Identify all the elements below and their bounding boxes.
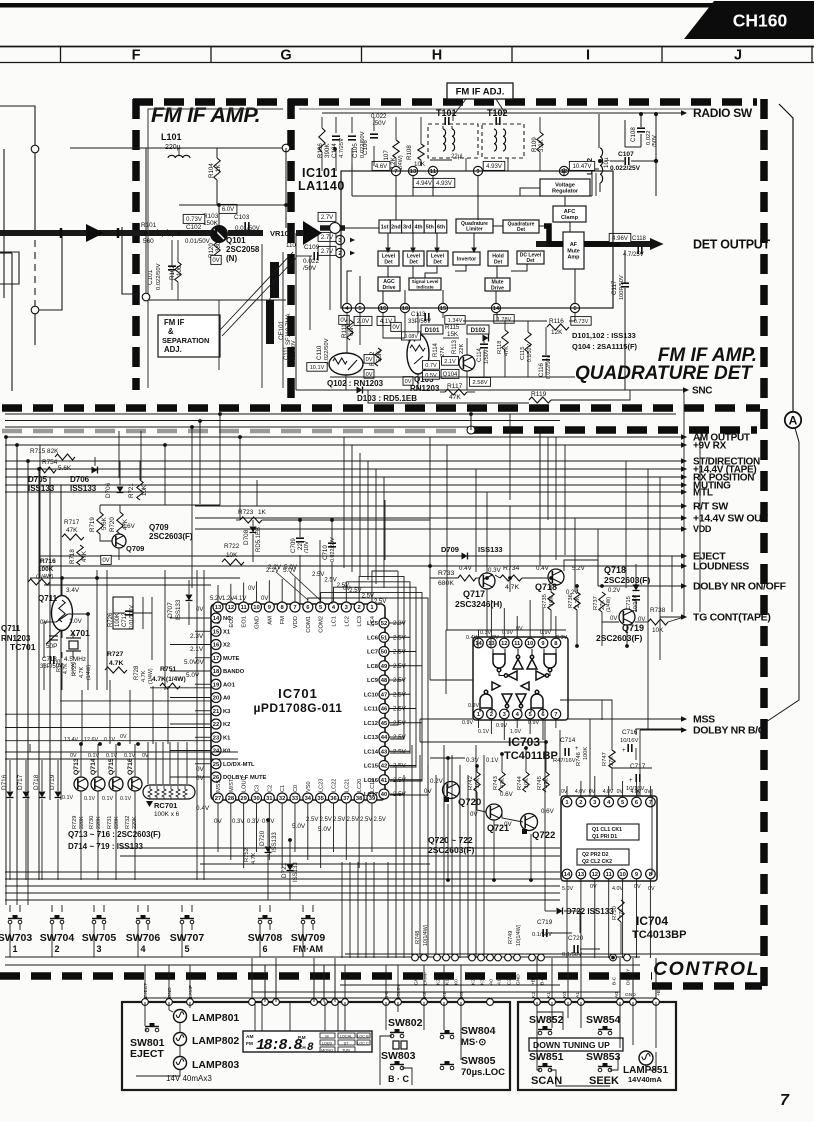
svg-text:SCAN: SCAN — [531, 1075, 562, 1087]
left low verticals — [82, 680, 168, 744]
net DOLBY NR B/C — [640, 729, 681, 731]
svg-text:RD5.1EB: RD5.1EB — [256, 527, 262, 552]
svg-text:C107: C107 — [618, 151, 634, 158]
svg-text:CONTROL: CONTROL — [653, 958, 760, 980]
svg-text:R101: R101 — [141, 222, 157, 229]
resistor R721 — [137, 480, 143, 500]
main bus arrowhead — [303, 221, 322, 245]
transistor Q102 oval — [329, 353, 363, 375]
wire IC101 box outline — [352, 165, 592, 196]
svg-text:DOLBY NR ON/OFF: DOLBY NR ON/OFF — [693, 581, 787, 593]
svg-text:ISS133: ISS133 — [478, 545, 503, 554]
svg-text:LC6: LC6 — [367, 635, 379, 641]
svg-text:0.3V: 0.3V — [480, 630, 491, 636]
svg-text:K2: K2 — [471, 979, 477, 985]
IC704 pin 14 — [562, 869, 572, 879]
svg-text:2.5V: 2.5V — [347, 817, 359, 823]
svg-text:0.9V: 0.9V — [556, 635, 567, 641]
IC703 pin 14 — [474, 638, 484, 648]
svg-text:R737: R737 — [593, 596, 599, 610]
svg-text:I: I — [586, 48, 590, 64]
right column verticals mid — [420, 390, 700, 760]
svg-text:SW854: SW854 — [586, 1014, 621, 1026]
svg-text:R103: R103 — [203, 213, 219, 220]
IC701 pin 32 — [277, 793, 287, 803]
net +9V RX — [5, 444, 681, 446]
diode D707 — [186, 595, 193, 601]
svg-text:DOWN TUNING UP: DOWN TUNING UP — [533, 1040, 610, 1050]
svg-text:10: 10 — [619, 872, 625, 878]
svg-text:SW853: SW853 — [586, 1051, 621, 1063]
svg-text:DET OUTPUT: DET OUTPUT — [693, 238, 771, 252]
IC101 bottom pin 10 — [400, 303, 409, 312]
svg-text:D720: D720 — [259, 830, 266, 846]
svg-text:3.9K: 3.9K — [538, 138, 545, 152]
svg-text:K2: K2 — [422, 992, 428, 998]
svg-text:Det: Det — [409, 259, 418, 265]
svg-text:C717: C717 — [630, 763, 646, 770]
svg-text:44: 44 — [381, 735, 388, 741]
lamp LAMP803 — [174, 1057, 187, 1070]
svg-text:Q102 : RN1203: Q102 : RN1203 — [327, 379, 384, 388]
IC701 pin 37 — [341, 793, 351, 803]
wires Q717-719 — [270, 555, 684, 680]
svg-text:ADJ.: ADJ. — [164, 345, 182, 354]
svg-text:47K: 47K — [500, 778, 506, 788]
svg-text:2SC3246(H): 2SC3246(H) — [455, 599, 502, 609]
svg-text:R720: R720 — [109, 517, 116, 532]
IC101 bottom pin 4 — [342, 303, 351, 312]
IC704 pin 2 — [576, 797, 586, 807]
svg-text:4.7K: 4.7K — [63, 663, 69, 674]
svg-text:0.022/50V: 0.022/50V — [156, 263, 162, 290]
svg-text:2: 2 — [490, 712, 493, 718]
svg-text:0.022: 0.022 — [371, 113, 387, 120]
svg-text:0.9V: 0.9V — [502, 630, 513, 636]
svg-text:X1: X1 — [223, 629, 231, 635]
svg-text:2.5V: 2.5V — [337, 583, 349, 589]
IC701 pin 45 — [379, 718, 389, 728]
wires IC701 left — [170, 618, 211, 777]
horizontal joins above boxes — [145, 958, 656, 1002]
svg-text:R747: R747 — [602, 752, 608, 766]
capacitor C108 — [637, 128, 645, 132]
svg-text:Q713: Q713 — [73, 758, 80, 775]
svg-text:TUN: TUN — [342, 1048, 350, 1052]
svg-text:12.6V: 12.6V — [84, 737, 98, 743]
svg-text:11: 11 — [241, 605, 248, 611]
net RX POSITION — [5, 476, 681, 478]
IF limiter stages — [379, 220, 447, 233]
IC701 pin 21 — [211, 706, 221, 716]
svg-text:Det: Det — [433, 259, 442, 265]
svg-text:0.1/50V: 0.1/50V — [562, 952, 582, 958]
svg-text:LC12: LC12 — [364, 721, 378, 727]
control section dashed border bottom left — [0, 972, 652, 980]
svg-text:27: 27 — [215, 796, 221, 802]
svg-text:70µs.LOC: 70µs.LOC — [461, 1067, 505, 1078]
svg-text:10K: 10K — [524, 778, 530, 788]
svg-text:Invertor: Invertor — [457, 256, 476, 262]
svg-text:D718: D718 — [33, 774, 40, 790]
svg-text:4.94V: 4.94V — [416, 181, 432, 187]
IC704 flipflop 2 — [577, 849, 629, 865]
svg-text:ISS133: ISS133 — [272, 832, 278, 852]
wire L101 net — [70, 147, 286, 149]
svg-text:0V: 0V — [648, 886, 655, 892]
svg-text:Q718: Q718 — [535, 582, 557, 592]
svg-text:0.022/50V: 0.022/50V — [546, 355, 552, 379]
connector circles top right box — [534, 999, 660, 1006]
svg-text:C0: C0 — [293, 785, 299, 792]
switch SW706 — [126, 905, 161, 954]
svg-text:R118: R118 — [497, 341, 503, 354]
svg-text:ISS133: ISS133 — [28, 484, 55, 493]
voltage 0.5V q103 — [423, 371, 440, 380]
svg-text:A: A — [789, 414, 798, 428]
svg-text:LC22: LC22 — [331, 779, 337, 792]
svg-text:&: & — [168, 327, 174, 336]
IC101 pin 9 — [473, 166, 482, 175]
svg-text:7: 7 — [394, 169, 397, 175]
capacitor C715 — [632, 596, 640, 600]
svg-text:0.4V: 0.4V — [459, 565, 473, 572]
diode D705 — [92, 467, 98, 474]
transistor Q719 — [619, 609, 635, 625]
svg-text:+: + — [622, 748, 626, 754]
svg-text:2.5V: 2.5V — [374, 599, 386, 605]
svg-text:VR101: VR101 — [270, 229, 293, 238]
svg-text:C2: C2 — [267, 785, 273, 792]
svg-text:22: 22 — [213, 722, 219, 728]
svg-text:35: 35 — [317, 796, 324, 802]
svg-text:2.5V: 2.5V — [393, 706, 407, 713]
IC701 pin 10 — [251, 602, 261, 612]
svg-text:Q720 ~ 722: Q720 ~ 722 — [428, 835, 473, 845]
svg-text:K0: K0 — [454, 979, 460, 985]
lamp LAMP851 — [639, 1051, 653, 1065]
svg-text:0.9V: 0.9V — [468, 703, 479, 709]
svg-text:Q720: Q720 — [458, 797, 481, 808]
vertical bundle bus to IC701 top — [344, 430, 565, 588]
svg-text:Q1 PRI D1: Q1 PRI D1 — [592, 834, 617, 840]
svg-text:CF101: CF101 — [278, 320, 285, 340]
svg-text:46: 46 — [381, 707, 388, 713]
control section dashed border top faint — [2, 429, 472, 434]
svg-text:+B: +B — [656, 990, 662, 996]
svg-text:K0: K0 — [459, 992, 465, 998]
display input wires — [255, 1002, 345, 1031]
svg-text:DOLBY: DOLBY — [626, 968, 632, 985]
IC703 body — [473, 637, 568, 720]
bottom mid verticals — [252, 958, 656, 1002]
svg-text:A0: A0 — [223, 696, 230, 702]
svg-text:R746: R746 — [576, 752, 582, 766]
inductor L102 — [600, 148, 603, 183]
svg-text:22µl: 22µl — [451, 154, 462, 160]
grid reference band — [0, 46, 814, 48]
svg-text:7: 7 — [780, 1092, 790, 1109]
svg-text:+B: +B — [531, 979, 537, 985]
svg-text:D103 : RD5.1EB: D103 : RD5.1EB — [357, 394, 417, 403]
svg-text:2SC2603(F): 2SC2603(F) — [149, 532, 193, 541]
svg-text:6th: 6th — [437, 225, 445, 231]
middle bus lines — [5, 414, 676, 492]
IC701 pin 40 — [379, 789, 389, 799]
svg-text:Q713 ~ 716 : 2SC2603(F): Q713 ~ 716 : 2SC2603(F) — [68, 830, 161, 839]
svg-text:Q2 PR2 D2: Q2 PR2 D2 — [582, 852, 609, 858]
svg-text:Clamp: Clamp — [561, 215, 579, 221]
svg-text:CH160: CH160 — [733, 11, 788, 31]
FM IF AMP section dashed border left — [132, 99, 140, 390]
svg-text:17: 17 — [213, 656, 219, 662]
svg-text:31: 31 — [266, 796, 273, 802]
svg-text:R751: R751 — [160, 666, 176, 673]
svg-text:5.0V: 5.0V — [562, 886, 573, 892]
net R/T SW — [195, 505, 681, 507]
svg-text:K0: K0 — [562, 992, 568, 998]
transistor Q718 — [548, 569, 564, 585]
svg-text:LOUD: LOUD — [322, 1041, 333, 1045]
svg-text:R718: R718 — [69, 549, 76, 564]
svg-text:C110: C110 — [316, 345, 323, 360]
svg-text:F: F — [132, 48, 141, 64]
svg-text:C709: C709 — [290, 538, 297, 553]
resistor R744 — [523, 772, 529, 792]
svg-text:C710: C710 — [322, 545, 329, 560]
svg-text:D101,102 : ISS133: D101,102 : ISS133 — [572, 331, 636, 340]
svg-text:Q2 CL2 CK2: Q2 CL2 CK2 — [582, 859, 612, 865]
svg-text:4.7K: 4.7K — [505, 584, 519, 591]
svg-text:MTL: MTL — [693, 488, 713, 499]
svg-text:2.5V: 2.5V — [393, 734, 407, 741]
svg-text:Drive: Drive — [383, 285, 396, 291]
resistor R104 — [214, 158, 220, 180]
svg-text:41: 41 — [381, 778, 388, 784]
svg-text:5th: 5th — [426, 225, 434, 231]
resistor R747 — [609, 750, 615, 768]
svg-text:0V: 0V — [70, 753, 77, 759]
svg-text:0.022/25V: 0.022/25V — [610, 165, 641, 172]
wire IC101 row — [345, 165, 575, 303]
voltage 2.0V — [354, 316, 372, 325]
svg-text:Regulator: Regulator — [552, 189, 579, 195]
IC704 pin 5 — [618, 797, 628, 807]
svg-text:RC701: RC701 — [154, 801, 177, 810]
resistor R737 — [599, 592, 605, 612]
IC701 pin 8 — [277, 602, 287, 612]
svg-text:25: 25 — [213, 762, 220, 768]
resistor R107 — [393, 140, 399, 158]
IC704 pin 8 — [646, 869, 656, 879]
svg-text:10/16V: 10/16V — [620, 738, 639, 744]
svg-text:Q717: Q717 — [463, 589, 485, 599]
svg-text:K2: K2 — [436, 979, 442, 985]
IC701 pin 24 — [211, 746, 221, 756]
IC701 pin 15 — [211, 626, 221, 636]
svg-text:D707: D707 — [167, 602, 174, 618]
svg-text:0V: 0V — [392, 325, 399, 331]
svg-text:D716: D716 — [1, 774, 8, 790]
svg-text:0.4V: 0.4V — [466, 635, 477, 641]
svg-text:0.4V: 0.4V — [536, 565, 550, 572]
svg-text:Det: Det — [517, 227, 525, 233]
svg-text:48: 48 — [381, 678, 388, 684]
svg-text:29: 29 — [240, 796, 247, 802]
svg-text:0V: 0V — [610, 616, 617, 622]
svg-text:0.01/50V: 0.01/50V — [185, 238, 211, 245]
IC703 pin 11 — [512, 638, 522, 648]
diode D719 — [55, 792, 62, 798]
svg-text:2.5V: 2.5V — [393, 663, 407, 670]
resistor R735 — [548, 592, 554, 610]
IC701 pin 49 — [379, 661, 389, 671]
IC701 pin 30 — [251, 793, 261, 803]
voltage 2.1V q104 — [442, 357, 459, 366]
svg-text:DOLBY: DOLBY — [396, 984, 401, 1000]
FM IF AMP inner thin border — [148, 109, 283, 388]
svg-text:47K: 47K — [449, 394, 461, 401]
display assembly — [243, 1031, 372, 1052]
svg-text:R117: R117 — [447, 383, 463, 390]
svg-text:5.0V: 5.0V — [292, 823, 306, 830]
svg-text:560: 560 — [143, 238, 154, 245]
SW803 indicator squares — [393, 1041, 399, 1049]
IC101 pin 12 — [559, 166, 568, 175]
svg-text:FM: FM — [246, 1041, 253, 1047]
svg-text:1.0V: 1.0V — [69, 618, 83, 625]
svg-text:2.7V: 2.7V — [321, 249, 333, 255]
svg-text:50P: 50P — [46, 643, 57, 650]
svg-text:0.1V: 0.1V — [84, 796, 95, 802]
IC101 bottom pin 16 — [378, 303, 387, 312]
svg-text:4.7K(1/4W): 4.7K(1/4W) — [152, 676, 186, 683]
svg-text:LOC B: LOC B — [357, 1034, 369, 1038]
resistor R106 — [319, 128, 325, 152]
svg-text:0.01/100V: 0.01/100V — [129, 605, 135, 629]
svg-text:LC16: LC16 — [364, 778, 379, 784]
IC701 pin 14 — [211, 613, 221, 623]
svg-text:28: 28 — [228, 796, 235, 802]
IC101 pin 13 — [408, 166, 417, 175]
resistor R120 — [214, 237, 220, 258]
svg-text:SW805: SW805 — [461, 1055, 496, 1067]
svg-text:2.5V: 2.5V — [320, 817, 332, 823]
resistor R720 — [117, 512, 123, 534]
resistor R111 — [347, 320, 353, 340]
IC701 pin 25 — [211, 759, 221, 769]
svg-text:ISS133: ISS133 — [70, 484, 97, 493]
CF101 column verticals — [261, 244, 263, 388]
svg-text:Q711: Q711 — [1, 624, 21, 633]
svg-text:1st: 1st — [381, 225, 389, 231]
voltage 2.7V c — [318, 246, 336, 255]
svg-text:DOLBY NR B/C: DOLBY NR B/C — [693, 725, 766, 737]
svg-text:0.9V: 0.9V — [462, 720, 473, 726]
leader lines separation adj — [220, 252, 293, 330]
svg-text:R725: R725 — [56, 659, 62, 672]
net LOUDNESS — [40, 565, 681, 567]
svg-text:CH: CH — [299, 1045, 306, 1050]
voltage 0V q102 b — [364, 370, 374, 379]
transistor Q104 — [459, 355, 475, 371]
svg-text:0.3V: 0.3V — [232, 819, 244, 825]
svg-text:C714: C714 — [560, 737, 576, 744]
voltage 0V pin4 — [339, 315, 349, 324]
svg-text:8: 8 — [307, 1042, 314, 1054]
FM IF AMP section dashed border bottom — [2, 404, 760, 412]
svg-text:Q722: Q722 — [532, 830, 555, 841]
svg-text:2: 2 — [579, 800, 582, 806]
tuning unit box — [518, 1002, 676, 1090]
svg-text:R717: R717 — [64, 519, 80, 526]
svg-text:D101: D101 — [425, 327, 440, 334]
svg-text:IC704: IC704 — [636, 914, 668, 928]
wires IC701 right — [389, 623, 422, 794]
CH160 title tab — [684, 1, 814, 39]
AGC drive block — [378, 277, 400, 291]
IC701 pin 48 — [379, 675, 389, 685]
svg-text:4.6V: 4.6V — [375, 164, 387, 170]
net MSS — [420, 718, 681, 720]
svg-text:R745: R745 — [537, 776, 543, 790]
svg-text:LC1: LC1 — [331, 616, 337, 627]
svg-text:D706: D706 — [105, 482, 112, 498]
svg-text:R728: R728 — [134, 665, 140, 680]
IC703 pin 2 — [487, 709, 497, 719]
voltage 6.0V — [219, 204, 237, 213]
wire 585 row — [44, 584, 211, 586]
svg-text:(N): (N) — [226, 254, 237, 263]
IC101 bottom pin 15 — [438, 303, 447, 312]
IC703 gate stubs — [480, 649, 556, 712]
junction dots texture — [4, 147, 638, 959]
svg-text:45: 45 — [381, 721, 388, 727]
switch SW709 — [291, 905, 326, 954]
horizontal bus under IC701 — [5, 872, 560, 900]
IC701 pin 7 — [290, 602, 300, 612]
voltage 0.73V Q101 — [183, 214, 205, 223]
svg-text:4th: 4th — [414, 225, 422, 231]
svg-text:5.0V: 5.0V — [318, 826, 332, 833]
svg-text:5.6K: 5.6K — [58, 465, 72, 472]
IC101 body outline — [341, 171, 613, 308]
svg-text:100P/50V: 100P/50V — [619, 275, 625, 300]
voltage 4.94V — [413, 178, 435, 187]
voltage 0V Q101 — [211, 255, 221, 264]
svg-text:RN1203: RN1203 — [410, 384, 440, 393]
IC701 pin 50 — [379, 647, 389, 657]
svg-text:0.022/50V: 0.022/50V — [291, 340, 297, 365]
svg-text:LC3: LC3 — [357, 616, 363, 627]
svg-text:15K: 15K — [447, 331, 459, 338]
voltage 4.93V a — [483, 161, 505, 170]
svg-text:C716: C716 — [622, 729, 638, 736]
mid vertical batch right of bus — [430, 437, 700, 660]
svg-text:Q716: Q716 — [127, 758, 134, 775]
control rule above — [345, 953, 765, 955]
svg-text:2.5V: 2.5V — [393, 748, 407, 755]
svg-text:Drive: Drive — [491, 285, 504, 291]
svg-text:J: J — [734, 48, 742, 64]
transistor Q721 — [486, 804, 502, 820]
FM IF & SEPARATION ADJ box — [158, 315, 220, 357]
quadrature limiter block — [456, 219, 493, 233]
svg-text:0V: 0V — [261, 596, 268, 602]
svg-text:H: H — [432, 48, 442, 64]
svg-text:C720: C720 — [568, 935, 584, 942]
resistor R118 — [502, 330, 508, 350]
